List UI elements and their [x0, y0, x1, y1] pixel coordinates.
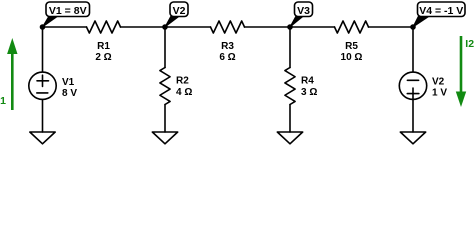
ground under V2: [400, 132, 425, 144]
svg-text:3 Ω: 3 Ω: [301, 87, 317, 98]
V1 plus sign: [37, 80, 49, 82]
wire R5 to node4: [369, 26, 414, 28]
callout tail node V4: [413, 16, 430, 27]
ground under R4: [277, 132, 302, 144]
current arrow I2: [460, 36, 463, 92]
wire node3 down to R4: [289, 27, 291, 68]
wire V1 to ground: [42, 100, 44, 133]
svg-text:R1: R1: [97, 41, 110, 52]
svg-text:V2: V2: [173, 5, 186, 17]
svg-text:V1 = 8V: V1 = 8V: [49, 5, 87, 17]
resistor R1: [87, 21, 121, 33]
svg-text:R3: R3: [221, 41, 234, 52]
wire R2 to ground: [164, 105, 166, 133]
svg-text:8 V: 8 V: [62, 88, 77, 99]
wire node4 down to V2 source: [412, 27, 414, 72]
node 1 junction dot: [40, 24, 46, 30]
resistor R2: [160, 68, 170, 105]
wire R3 to node3: [245, 26, 335, 28]
wire V2 to ground: [412, 100, 414, 133]
ground under V1: [30, 132, 55, 144]
svg-text:1 V: 1 V: [432, 88, 447, 99]
node 2 junction dot: [162, 24, 168, 30]
svg-text:I2: I2: [465, 38, 474, 50]
svg-text:R5: R5: [345, 41, 358, 52]
wire node2 down to R2: [164, 27, 166, 68]
voltage source V2 circle: [399, 72, 426, 99]
wire top segment node1 to R1: [43, 26, 87, 28]
svg-text:R2: R2: [176, 76, 189, 87]
wire R4 to ground: [289, 105, 291, 133]
callout box V3: [295, 2, 313, 17]
node 3 junction dot: [287, 24, 293, 30]
callout box V1 = 8V: [46, 2, 90, 17]
svg-text:I1: I1: [0, 95, 6, 107]
current arrow I1: [11, 53, 14, 110]
wire node1 down to V1 source: [42, 27, 44, 72]
callout tail node V1: [43, 16, 59, 27]
V2 plus sign: [407, 93, 419, 95]
callout tail node V2: [165, 16, 180, 27]
node 4 junction dot: [410, 24, 416, 30]
svg-text:V2: V2: [432, 77, 445, 88]
resistor R4: [285, 68, 295, 105]
callout tail node V3: [290, 16, 304, 27]
ground under R2: [152, 132, 177, 144]
svg-text:4 Ω: 4 Ω: [176, 87, 192, 98]
svg-text:6 Ω: 6 Ω: [219, 52, 235, 63]
svg-text:V4 = -1 V: V4 = -1 V: [419, 5, 463, 17]
voltage source V1 circle: [29, 72, 56, 99]
resistor R3: [211, 21, 245, 33]
svg-text:V1: V1: [62, 77, 75, 88]
svg-text:V3: V3: [297, 5, 310, 17]
resistor R5: [335, 21, 369, 33]
callout box V4 = -1 V: [418, 2, 466, 17]
callout box V2: [170, 2, 188, 17]
svg-text:2 Ω: 2 Ω: [95, 52, 111, 63]
svg-text:R4: R4: [301, 76, 314, 87]
svg-text:10 Ω: 10 Ω: [341, 52, 363, 63]
V2 minus sign: [407, 79, 418, 81]
wire R1 to node2: [121, 26, 211, 28]
V1 minus sign: [37, 92, 48, 94]
